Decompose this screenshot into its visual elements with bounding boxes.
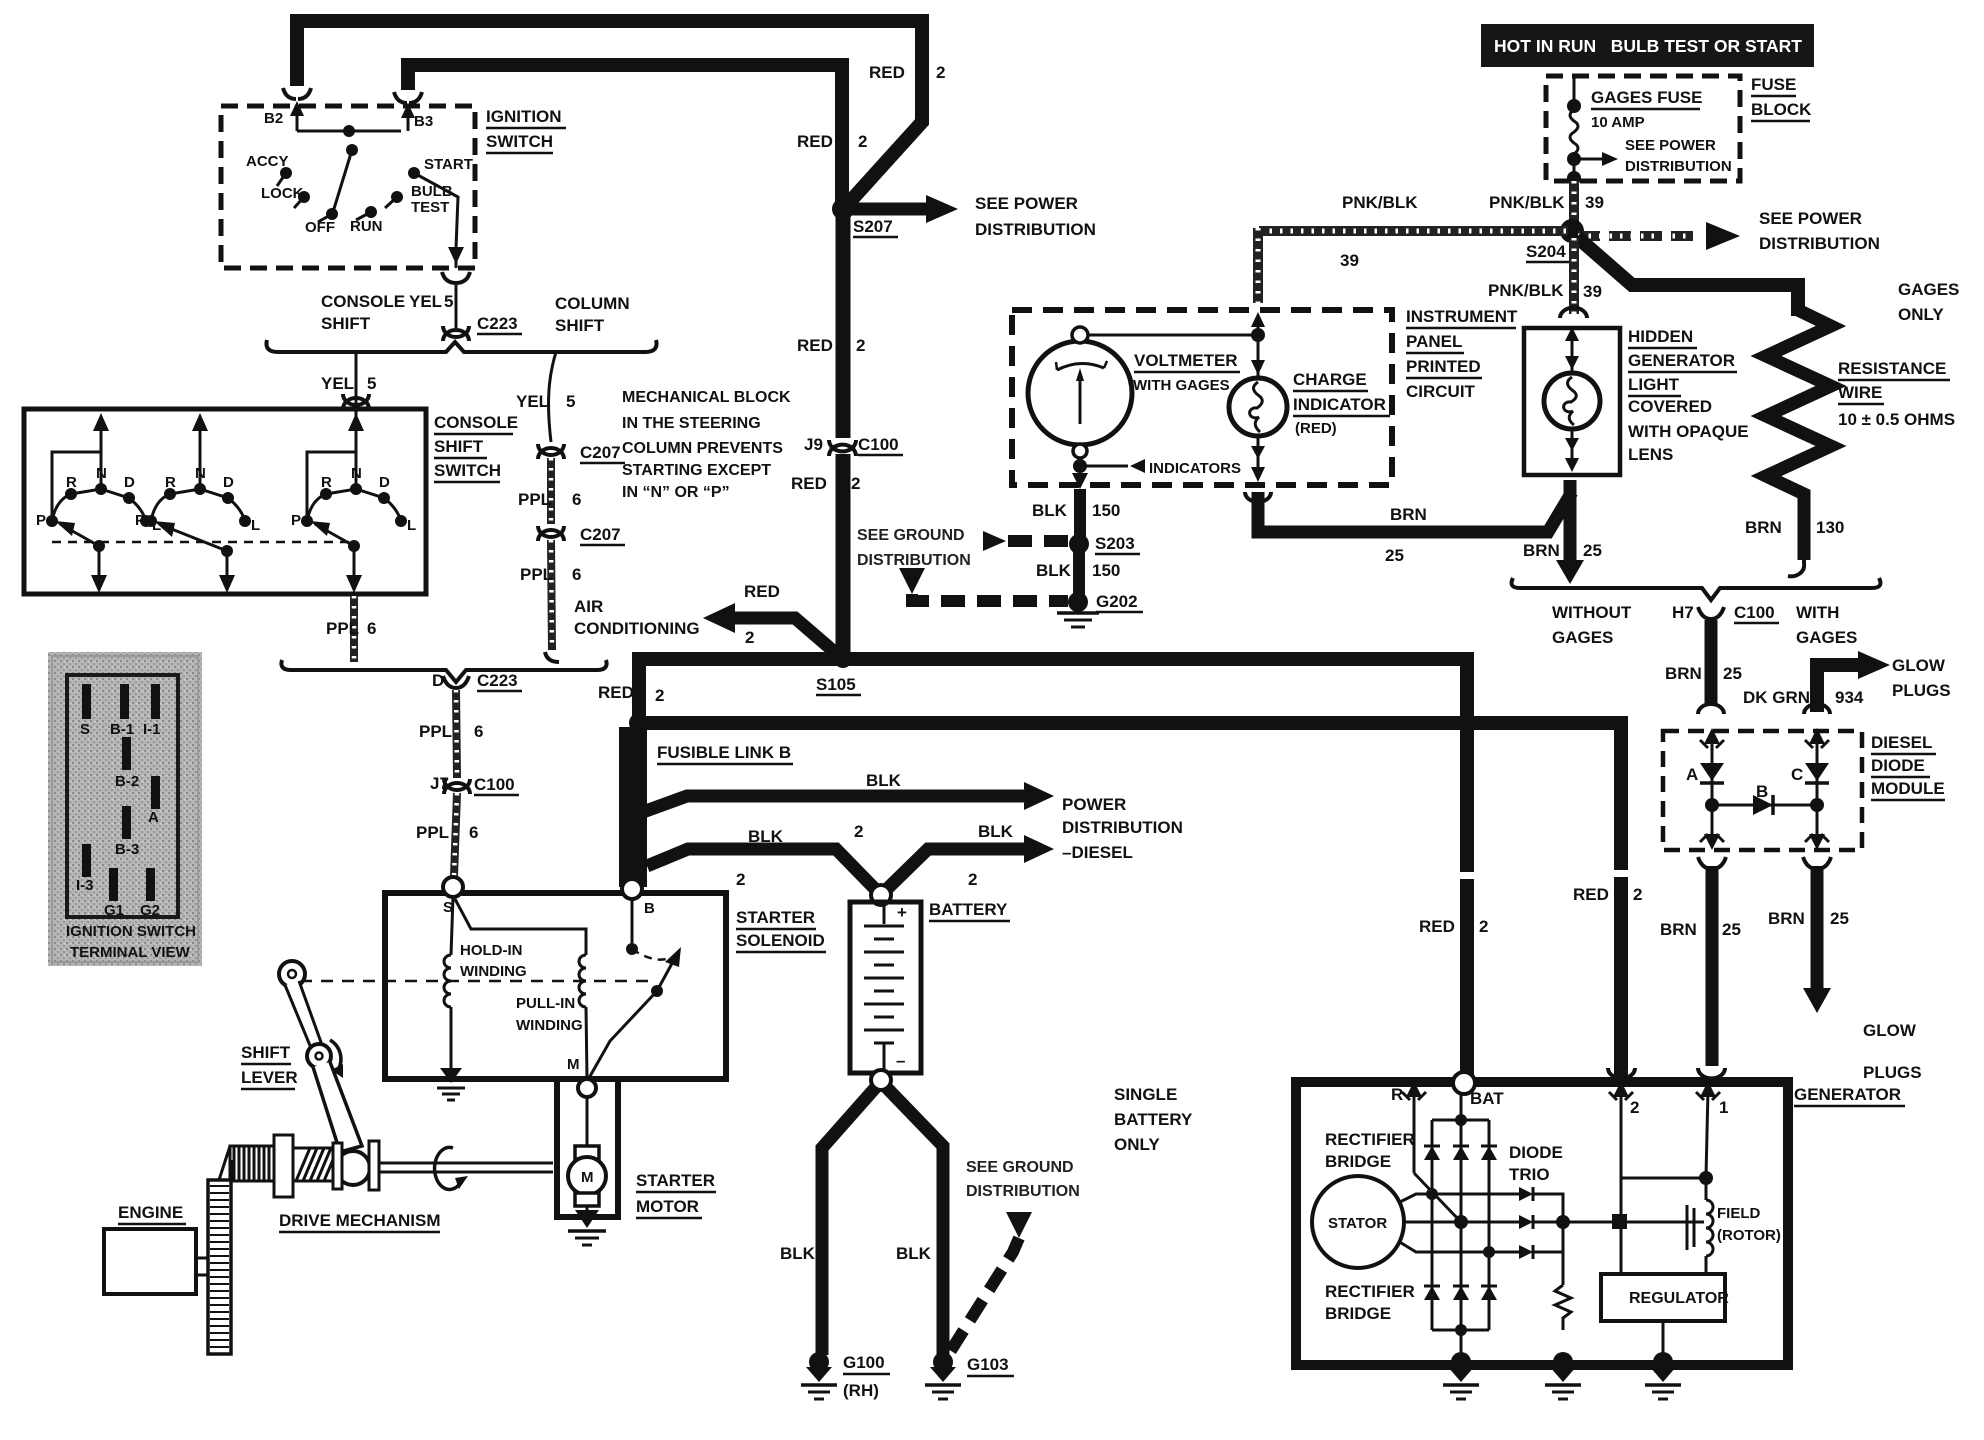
svg-text:IN “N” OR “P”: IN “N” OR “P” (622, 484, 730, 501)
svg-text:C223: C223 (477, 314, 518, 333)
svg-text:WIRE: WIRE (1838, 383, 1882, 402)
svg-text:D: D (124, 474, 135, 491)
svg-text:FIELD: FIELD (1717, 1205, 1760, 1222)
svg-text:ONLY: ONLY (1898, 305, 1944, 324)
svg-text:6: 6 (572, 565, 581, 584)
svg-text:PLUGS: PLUGS (1863, 1063, 1922, 1082)
svg-text:GENERATOR: GENERATOR (1628, 351, 1735, 370)
svg-text:150: 150 (1092, 561, 1120, 580)
svg-text:DIESEL: DIESEL (1871, 733, 1932, 752)
svg-text:IGNITION: IGNITION (486, 107, 562, 126)
svg-text:2: 2 (1633, 885, 1642, 904)
svg-text:RED: RED (797, 132, 833, 151)
svg-text:DISTRIBUTION: DISTRIBUTION (1759, 234, 1880, 253)
svg-text:STATOR: STATOR (1328, 1215, 1387, 1232)
svg-text:C100: C100 (858, 435, 899, 454)
svg-text:PLUGS: PLUGS (1892, 681, 1951, 700)
svg-text:WINDING: WINDING (460, 963, 527, 980)
svg-text:39: 39 (1583, 282, 1602, 301)
svg-text:6: 6 (474, 722, 483, 741)
svg-text:BATTERY: BATTERY (1114, 1110, 1193, 1129)
svg-text:R: R (1391, 1085, 1403, 1104)
svg-text:GLOW: GLOW (1892, 656, 1946, 675)
svg-text:–: – (896, 1051, 905, 1070)
svg-text:J9: J9 (804, 435, 823, 454)
svg-text:B-1: B-1 (110, 721, 134, 738)
svg-text:C207: C207 (580, 525, 621, 544)
svg-text:FUSE: FUSE (1751, 75, 1796, 94)
svg-text:DISTRIBUTION: DISTRIBUTION (975, 220, 1096, 239)
svg-text:SWITCH: SWITCH (486, 132, 553, 151)
svg-text:SHIFT: SHIFT (555, 316, 605, 335)
svg-text:MOTOR: MOTOR (636, 1197, 699, 1216)
svg-text:10 ± 0.5 OHMS: 10 ± 0.5 OHMS (1838, 410, 1955, 429)
svg-text:G103: G103 (967, 1355, 1009, 1374)
svg-text:6: 6 (469, 823, 478, 842)
svg-text:DISTRIBUTION: DISTRIBUTION (1062, 818, 1183, 837)
svg-text:M: M (567, 1056, 580, 1073)
svg-text:2: 2 (851, 474, 860, 493)
svg-text:SEE POWER: SEE POWER (975, 194, 1078, 213)
svg-text:RECTIFIER: RECTIFIER (1325, 1130, 1415, 1149)
svg-text:39: 39 (1340, 251, 1359, 270)
svg-text:RED: RED (598, 683, 634, 702)
svg-text:L: L (251, 517, 260, 534)
svg-text:–DIESEL: –DIESEL (1062, 843, 1133, 862)
svg-text:RED: RED (869, 63, 905, 82)
svg-text:S204: S204 (1526, 242, 1566, 261)
svg-text:SWITCH: SWITCH (434, 461, 501, 480)
svg-text:STARTER: STARTER (736, 908, 815, 927)
svg-text:BATTERY: BATTERY (929, 900, 1008, 919)
svg-text:SEE POWER: SEE POWER (1625, 137, 1716, 154)
svg-text:G1: G1 (104, 902, 124, 919)
svg-text:CIRCUIT: CIRCUIT (1406, 382, 1476, 401)
svg-text:RED: RED (1419, 917, 1455, 936)
svg-text:GAGES FUSE: GAGES FUSE (1591, 88, 1702, 107)
svg-text:BLK: BLK (896, 1244, 932, 1263)
svg-text:SHIFT: SHIFT (241, 1043, 291, 1062)
svg-text:WITHOUT: WITHOUT (1552, 603, 1632, 622)
svg-text:S: S (80, 721, 90, 738)
svg-text:IGNITION SWITCH: IGNITION SWITCH (66, 923, 196, 940)
svg-text:INSTRUMENT: INSTRUMENT (1406, 307, 1518, 326)
svg-text:LOCK: LOCK (261, 185, 304, 202)
svg-text:D: D (223, 474, 234, 491)
svg-text:DK GRN: DK GRN (1743, 688, 1810, 707)
svg-text:5: 5 (367, 374, 376, 393)
svg-text:J7: J7 (430, 774, 449, 793)
svg-text:A: A (1686, 765, 1698, 784)
svg-text:RED: RED (791, 474, 827, 493)
svg-text:FUSIBLE LINK B: FUSIBLE LINK B (657, 743, 791, 762)
svg-text:DISTRIBUTION: DISTRIBUTION (966, 1183, 1080, 1200)
svg-text:RED: RED (744, 582, 780, 601)
svg-text:CONSOLE: CONSOLE (434, 413, 518, 432)
svg-text:S203: S203 (1095, 534, 1135, 553)
svg-text:CONSOLE: CONSOLE (321, 292, 405, 311)
svg-text:B2: B2 (264, 110, 283, 127)
svg-text:PULL-IN: PULL-IN (516, 995, 575, 1012)
svg-text:PPL: PPL (518, 490, 551, 509)
svg-text:25: 25 (1723, 664, 1742, 683)
svg-text:P: P (36, 512, 46, 529)
svg-text:BAT: BAT (1470, 1089, 1504, 1108)
svg-text:D: D (379, 474, 390, 491)
svg-text:LIGHT: LIGHT (1628, 375, 1680, 394)
svg-text:COLUMN: COLUMN (555, 294, 630, 313)
svg-text:BRN: BRN (1665, 664, 1702, 683)
svg-text:N: N (96, 465, 107, 482)
svg-text:RUN: RUN (350, 218, 383, 235)
svg-text:STARTING EXCEPT: STARTING EXCEPT (622, 462, 771, 479)
svg-text:C223: C223 (477, 671, 518, 690)
svg-text:R: R (321, 474, 332, 491)
svg-text:PRINTED: PRINTED (1406, 357, 1481, 376)
svg-text:2: 2 (1630, 1098, 1639, 1117)
svg-text:WITH OPAQUE: WITH OPAQUE (1628, 422, 1749, 441)
svg-text:L: L (407, 517, 416, 534)
svg-text:YEL: YEL (516, 392, 549, 411)
svg-text:PNK/BLK: PNK/BLK (1488, 281, 1564, 300)
svg-text:TEST: TEST (411, 199, 449, 216)
svg-text:CHARGE: CHARGE (1293, 370, 1367, 389)
svg-text:P: P (135, 512, 145, 529)
svg-text:PNK/BLK: PNK/BLK (1489, 193, 1565, 212)
svg-text:2: 2 (856, 336, 865, 355)
svg-text:B-3: B-3 (115, 841, 139, 858)
svg-text:DRIVE MECHANISM: DRIVE MECHANISM (279, 1211, 441, 1230)
svg-text:LENS: LENS (1628, 445, 1673, 464)
svg-text:BRN: BRN (1523, 541, 1560, 560)
svg-text:D: D (432, 671, 444, 690)
svg-text:25: 25 (1830, 909, 1849, 928)
svg-text:HOT IN RUN BULB TEST OR STAR: HOT IN RUN BULB TEST OR START (1494, 36, 1802, 56)
svg-text:1: 1 (1719, 1098, 1728, 1117)
svg-text:OFF: OFF (305, 219, 335, 236)
svg-text:DIODE: DIODE (1509, 1143, 1563, 1162)
svg-text:6: 6 (367, 619, 376, 638)
svg-text:START: START (424, 156, 473, 173)
svg-text:REGULATOR: REGULATOR (1629, 1290, 1729, 1307)
svg-text:BRIDGE: BRIDGE (1325, 1152, 1391, 1171)
svg-text:+: + (897, 903, 907, 922)
svg-text:PPL: PPL (326, 619, 359, 638)
svg-text:25: 25 (1385, 546, 1404, 565)
svg-text:39: 39 (1585, 193, 1604, 212)
svg-text:PPL: PPL (416, 823, 449, 842)
svg-text:150: 150 (1092, 501, 1120, 520)
svg-text:R: R (66, 474, 77, 491)
svg-text:G100: G100 (843, 1353, 885, 1372)
svg-text:BRN: BRN (1768, 909, 1805, 928)
svg-text:BLK: BLK (866, 771, 902, 790)
svg-text:M: M (581, 1169, 594, 1186)
svg-text:RECTIFIER: RECTIFIER (1325, 1282, 1415, 1301)
svg-text:2: 2 (1479, 917, 1488, 936)
svg-text:HIDDEN: HIDDEN (1628, 327, 1693, 346)
svg-text:SINGLE: SINGLE (1114, 1085, 1177, 1104)
svg-text:TERMINAL VIEW: TERMINAL VIEW (70, 944, 191, 961)
svg-text:SHIFT: SHIFT (321, 314, 371, 333)
svg-text:RESISTANCE: RESISTANCE (1838, 359, 1946, 378)
svg-text:WITH GAGES: WITH GAGES (1133, 377, 1230, 394)
svg-text:C207: C207 (580, 443, 621, 462)
svg-text:25: 25 (1722, 920, 1741, 939)
svg-text:DISTRIBUTION: DISTRIBUTION (857, 552, 971, 569)
svg-text:BLK: BLK (748, 827, 784, 846)
svg-text:S207: S207 (853, 217, 893, 236)
svg-text:MODULE: MODULE (1871, 779, 1945, 798)
svg-text:WINDING: WINDING (516, 1017, 583, 1034)
svg-text:N: N (195, 465, 206, 482)
svg-text:B3: B3 (414, 113, 433, 130)
svg-text:VOLTMETER: VOLTMETER (1134, 351, 1238, 370)
svg-text:5: 5 (566, 392, 575, 411)
svg-text:C100: C100 (1734, 603, 1775, 622)
svg-text:YEL: YEL (409, 292, 442, 311)
svg-text:G202: G202 (1096, 592, 1138, 611)
svg-text:PNK/BLK: PNK/BLK (1342, 193, 1418, 212)
svg-text:ENGINE: ENGINE (118, 1203, 183, 1222)
svg-text:2: 2 (968, 870, 977, 889)
svg-text:RED: RED (797, 336, 833, 355)
svg-text:S105: S105 (816, 675, 856, 694)
svg-text:2: 2 (858, 132, 867, 151)
svg-text:25: 25 (1583, 541, 1602, 560)
svg-text:CONDITIONING: CONDITIONING (574, 619, 700, 638)
svg-text:ONLY: ONLY (1114, 1135, 1160, 1154)
svg-text:MECHANICAL BLOCK: MECHANICAL BLOCK (622, 389, 791, 406)
svg-text:B: B (644, 900, 655, 917)
svg-text:BRN: BRN (1745, 518, 1782, 537)
svg-text:I-1: I-1 (143, 721, 161, 738)
svg-text:C100: C100 (474, 775, 515, 794)
svg-text:G2: G2 (140, 902, 160, 919)
svg-text:R: R (165, 474, 176, 491)
svg-text:COVERED: COVERED (1628, 397, 1712, 416)
svg-text:COLUMN PREVENTS: COLUMN PREVENTS (622, 440, 783, 457)
svg-text:STARTER: STARTER (636, 1171, 715, 1190)
svg-text:6: 6 (572, 490, 581, 509)
svg-text:DISTRIBUTION: DISTRIBUTION (1625, 158, 1732, 175)
svg-text:PANEL: PANEL (1406, 332, 1462, 351)
svg-text:WITH: WITH (1796, 603, 1839, 622)
svg-text:P: P (291, 512, 301, 529)
svg-text:TRIO: TRIO (1509, 1165, 1550, 1184)
svg-text:(RED): (RED) (1295, 420, 1337, 437)
svg-text:PPL: PPL (419, 722, 452, 741)
svg-text:(RH): (RH) (843, 1381, 879, 1400)
svg-text:B-2: B-2 (115, 773, 139, 790)
svg-text:GAGES: GAGES (1552, 628, 1613, 647)
svg-text:934: 934 (1835, 688, 1864, 707)
svg-text:2: 2 (655, 686, 664, 705)
svg-text:GAGES: GAGES (1796, 628, 1857, 647)
svg-text:HOLD-IN: HOLD-IN (460, 942, 523, 959)
svg-text:BRN: BRN (1660, 920, 1697, 939)
svg-text:LEVER: LEVER (241, 1068, 298, 1087)
svg-text:PPL: PPL (520, 565, 553, 584)
svg-text:BRIDGE: BRIDGE (1325, 1304, 1391, 1323)
svg-text:130: 130 (1816, 518, 1844, 537)
svg-text:SEE POWER: SEE POWER (1759, 209, 1862, 228)
svg-text:2: 2 (745, 628, 754, 647)
svg-text:GAGES: GAGES (1898, 280, 1959, 299)
svg-text:SOLENOID: SOLENOID (736, 931, 825, 950)
svg-text:INDICATORS: INDICATORS (1149, 460, 1241, 477)
svg-text:BLK: BLK (1032, 501, 1068, 520)
svg-text:I-3: I-3 (76, 877, 94, 894)
svg-text:SHIFT: SHIFT (434, 437, 484, 456)
svg-text:C: C (1791, 765, 1803, 784)
svg-text:YEL: YEL (321, 374, 354, 393)
svg-text:INDICATOR: INDICATOR (1293, 395, 1386, 414)
svg-text:POWER: POWER (1062, 795, 1126, 814)
svg-text:2: 2 (936, 63, 945, 82)
svg-text:SEE GROUND: SEE GROUND (966, 1159, 1074, 1176)
svg-text:2: 2 (736, 870, 745, 889)
svg-text:BLK: BLK (978, 822, 1014, 841)
svg-text:AIR: AIR (574, 597, 603, 616)
svg-text:IN THE STEERING: IN THE STEERING (622, 415, 761, 432)
svg-text:H7: H7 (1672, 603, 1694, 622)
svg-text:B: B (1756, 782, 1768, 801)
svg-text:(ROTOR): (ROTOR) (1717, 1227, 1781, 1244)
svg-text:2: 2 (854, 822, 863, 841)
svg-text:SEE GROUND: SEE GROUND (857, 527, 965, 544)
svg-text:ACCY: ACCY (246, 153, 289, 170)
svg-text:DIODE: DIODE (1871, 756, 1925, 775)
svg-text:10 AMP: 10 AMP (1591, 114, 1645, 131)
svg-text:GENERATOR: GENERATOR (1794, 1085, 1901, 1104)
svg-text:N: N (351, 465, 362, 482)
svg-text:BRN: BRN (1390, 505, 1427, 524)
svg-text:BLOCK: BLOCK (1751, 100, 1812, 119)
svg-text:5: 5 (444, 292, 453, 311)
svg-text:BLK: BLK (1036, 561, 1072, 580)
svg-text:BLK: BLK (780, 1244, 816, 1263)
svg-text:A: A (148, 809, 159, 826)
svg-text:GLOW: GLOW (1863, 1021, 1917, 1040)
svg-text:RED: RED (1573, 885, 1609, 904)
